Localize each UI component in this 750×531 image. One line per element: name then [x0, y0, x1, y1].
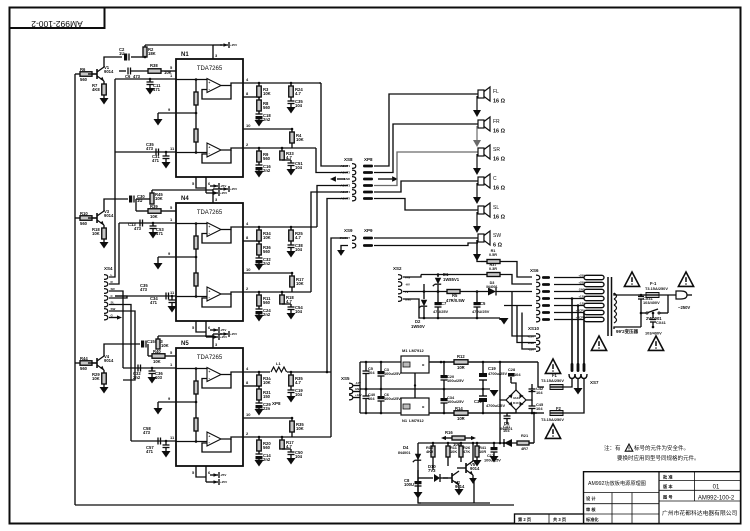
bottom bus wire: [75, 504, 514, 506]
resistor R6: [75, 73, 80, 75]
wire XS2 row4: [403, 299, 500, 318]
capacitor C41 104: [506, 410, 508, 414]
svg-text:10K: 10K: [161, 343, 169, 348]
N5 pin9 internal wire: [176, 401, 196, 403]
top rail stage1: [145, 44, 213, 46]
wire pin11 row stage2: [115, 295, 176, 297]
svg-text:471: 471: [153, 87, 161, 92]
wire XP8 to SR: [374, 152, 478, 186]
svg-text:TDA7265: TDA7265: [197, 210, 223, 216]
N5 pin2 wire: [243, 436, 331, 438]
svg-text:2n2: 2n2: [133, 375, 141, 380]
XP8 gnd arrow right: [378, 178, 392, 180]
regulator N2 LM7912: [401, 398, 429, 415]
wire N1 pin4 to XS8: [319, 82, 321, 84]
svg-text:-25V: -25V: [220, 184, 226, 188]
svg-text:+: +: [209, 435, 211, 439]
wire riser D5 rail: [499, 426, 501, 443]
wire C2 to R2: [131, 56, 145, 58]
N1 pin2 wire: [243, 147, 316, 149]
wire to XS6 row4: [477, 298, 532, 299]
wire C30 to R45: [136, 198, 152, 200]
resistor R4: [291, 129, 293, 132]
capacitor C35: [290, 97, 292, 101]
svg-text:10K: 10K: [263, 235, 271, 240]
svg-text:22n: 22n: [263, 406, 271, 411]
wire top rail corner: [537, 362, 539, 387]
N4 pin1 internal wire: [176, 223, 207, 225]
svg-text:10: 10: [246, 267, 251, 272]
svg-text:C: C: [493, 176, 497, 182]
svg-text:T3.15A/250V: T3.15A/250V: [645, 286, 668, 291]
svg-text:16 Ω: 16 Ω: [493, 157, 506, 163]
svg-text:R12: R12: [457, 354, 465, 359]
resistor R43 10K: [156, 339, 160, 349]
transformer core: [607, 277, 609, 336]
wire XS6 row4 in: [503, 306, 505, 319]
svg-text:GND: GND: [355, 387, 361, 391]
bus wire 1: [109, 79, 115, 277]
bus wire 3: [109, 291, 123, 368]
resistor R35: [291, 418, 293, 421]
svg-text:2n2: 2n2: [263, 457, 271, 462]
capacitor C5 470U: [476, 290, 479, 293]
svg-text:10K: 10K: [263, 380, 271, 385]
resistor R24: [290, 83, 292, 86]
wire pin1 row stage1: [115, 78, 176, 80]
N1 internal resistor lower: [195, 113, 197, 129]
frame vertical x474: [473, 478, 475, 503]
connector XS5 contacts: [349, 383, 353, 388]
capacitor C19 4700u: [482, 361, 485, 364]
svg-text:560: 560: [80, 77, 88, 82]
svg-text:R6: R6: [80, 67, 86, 72]
svg-text:4.7: 4.7: [295, 91, 301, 96]
capacitor C20 100u: [443, 361, 446, 364]
warning triangle F2: [545, 424, 560, 438]
svg-text:设 计: 设 计: [586, 495, 596, 502]
resistor R16 10K: [452, 436, 465, 440]
zener D2: [423, 290, 426, 293]
connector XS9 contacts: [352, 236, 356, 241]
resistor R40 10K: [147, 344, 149, 356]
capacitor C35 473: [155, 149, 157, 156]
speaker FL: [478, 90, 484, 98]
power left edge: [359, 362, 361, 413]
svg-text:99'2变压器: 99'2变压器: [616, 328, 639, 335]
resistor R29: [103, 370, 105, 373]
resistor R10: [75, 217, 80, 219]
svg-text:R44: R44: [80, 356, 88, 361]
svg-text:+25V: +25V: [230, 332, 237, 336]
op-amp IC N5 TDA7265 box: [176, 348, 243, 466]
svg-text:10K: 10K: [296, 137, 304, 142]
resistor R3: [258, 83, 260, 86]
svg-text:4.7: 4.7: [286, 444, 292, 449]
svg-text:1W50V: 1W50V: [411, 324, 425, 329]
ground under C35: [287, 107, 296, 114]
svg-text:XS9: XS9: [344, 228, 353, 233]
svg-text:10K: 10K: [92, 231, 100, 236]
capacitor C50: [290, 449, 292, 452]
svg-text:9014: 9014: [104, 213, 114, 218]
svg-text:XS8: XS8: [344, 157, 353, 162]
svg-text:-12V: -12V: [355, 381, 361, 385]
wire pin11 row stage1: [115, 151, 176, 153]
svg-text:+25V: +25V: [230, 187, 237, 191]
svg-text:0.3R: 0.3R: [489, 267, 497, 271]
svg-text:100U: 100U: [404, 482, 414, 487]
svg-text:9014: 9014: [470, 466, 480, 471]
capacitor CX41 top: [638, 296, 644, 298]
title block verticals: [658, 472, 660, 524]
svg-text:10K: 10K: [153, 359, 161, 364]
svg-text:4K9: 4K9: [426, 449, 434, 454]
svg-text:N1: N1: [181, 52, 189, 58]
wire N1 pin2 to XS8: [316, 148, 348, 173]
bus wire 4: [109, 296, 127, 298]
svg-text:XP8: XP8: [364, 157, 373, 162]
capacitor C34 471: [171, 295, 174, 298]
XS4 arrow: [109, 317, 117, 319]
svg-text:100u/25V: 100u/25V: [447, 378, 464, 383]
wire row6 to XS8: [327, 199, 348, 373]
ground under C32: [255, 264, 264, 271]
feedback wire N4: [291, 287, 293, 292]
primary top wire: [614, 293, 638, 295]
transistor V1: [96, 69, 98, 79]
capacitor C40 104: [365, 388, 368, 391]
svg-text:104: 104: [295, 309, 303, 314]
op-amp A inside N5: [207, 368, 221, 382]
connector XP9 pins: [363, 237, 373, 240]
N5 internal resistor upper: [195, 369, 197, 382]
svg-text:16 Ω: 16 Ω: [493, 129, 506, 135]
ground col E: [287, 169, 296, 176]
N1 pin1 internal wire: [176, 79, 207, 81]
svg-text:XP9: XP9: [364, 228, 373, 233]
transistor V4: [96, 358, 98, 368]
capacitor C32 2n2: [137, 365, 139, 372]
N5 pin9 ground: [158, 401, 176, 403]
primary bottom wire: [614, 327, 641, 329]
resistor R11b: [447, 443, 449, 446]
bundle wire 3: [583, 313, 585, 365]
svg-text:104: 104: [295, 165, 303, 170]
N5 pin10 wire: [243, 417, 292, 419]
speaker FR return arrow: [476, 126, 478, 140]
svg-text:103/400V: 103/400V: [645, 331, 662, 336]
svg-text:104: 104: [536, 390, 543, 395]
resistor R5 47R: [447, 290, 460, 294]
N4 pins 5 6 rail: [196, 321, 206, 332]
connector XS8 contacts: [352, 164, 356, 169]
regulator gnd link: [414, 373, 416, 398]
XS5 stubs: [353, 385, 360, 387]
svg-text:100u/25V: 100u/25V: [384, 396, 401, 401]
resistor R34: [258, 372, 260, 375]
svg-text:9014: 9014: [104, 69, 114, 74]
resistor R20: [258, 437, 260, 440]
wire XS7 right down: [563, 379, 584, 414]
bridge rectifier: [506, 390, 526, 410]
svg-text:10K: 10K: [92, 376, 100, 381]
svg-text:3A10: 3A10: [513, 396, 521, 400]
capacitor C54: [290, 304, 292, 307]
svg-text:LM7912: LM7912: [409, 348, 424, 353]
svg-text:560: 560: [263, 300, 271, 305]
transformer secondary windings: [584, 275, 604, 279]
capacitor C6 100u: [380, 389, 382, 396]
wire R37 right: [500, 275, 532, 285]
svg-text:104: 104: [368, 396, 375, 401]
capacitor C11 471: [149, 78, 152, 81]
N4 pin8 wire: [243, 240, 259, 242]
capacitor C34b 100u: [443, 412, 446, 415]
resistor R34: [258, 227, 260, 230]
svg-text:104: 104: [295, 392, 303, 397]
capacitor C18: [258, 111, 260, 114]
svg-text:+25V: +25V: [220, 480, 227, 484]
capacitor C35b 473: [165, 293, 167, 300]
svg-text:版 本: 版 本: [663, 483, 673, 490]
N1 feedback loop upper: [202, 86, 231, 100]
bus wire 5: [109, 305, 131, 442]
N1 pin10 wire: [243, 128, 292, 130]
resistor R39 10K: [135, 199, 137, 211]
resistor R18: [103, 225, 105, 228]
svg-text:9014: 9014: [455, 484, 465, 489]
svg-text:104: 104: [368, 370, 375, 375]
capacitor C38: [290, 241, 292, 245]
capacitor C32: [258, 255, 260, 258]
transformer primary winding: [614, 293, 617, 299]
op-amp A inside N1: [207, 79, 221, 93]
N1 pin9 internal wire: [176, 112, 196, 114]
svg-text:471: 471: [152, 158, 160, 163]
svg-text:M1: M1: [402, 348, 408, 353]
ground under C38: [287, 251, 296, 258]
title block outline: [584, 472, 741, 524]
op-amp B inside N5: [207, 432, 221, 446]
capacitor C51: [290, 160, 292, 163]
svg-text:100u/25V: 100u/25V: [384, 371, 401, 376]
N5 pin4 wire: [243, 371, 331, 373]
svg-text:注：有: 注：有: [604, 444, 621, 452]
svg-text:R40: R40: [153, 349, 161, 354]
svg-text:+12V: +12V: [355, 393, 362, 397]
svg-text:C13: C13: [128, 222, 136, 227]
warning triangle 2: [678, 272, 693, 286]
ground zener block: [499, 318, 501, 320]
connector XS6 contacts: [536, 275, 540, 280]
speaker SR: [478, 148, 484, 156]
N1 pin8 wire: [243, 96, 259, 98]
op-amp A inside N4: [207, 223, 221, 237]
ground under R7: [103, 95, 105, 98]
svg-text:+: +: [209, 81, 211, 85]
capacitor C15 1U: [141, 341, 144, 348]
N1 output wire lower: [221, 148, 243, 150]
N1 pins 5 6 rail: [196, 177, 206, 188]
N4 output wire lower: [221, 292, 243, 294]
svg-text:R38: R38: [150, 63, 158, 68]
svg-text:XS4: XS4: [104, 266, 113, 271]
connector XS2 contacts: [398, 275, 402, 280]
ground under C29: [255, 409, 264, 416]
resistor R2 18K: [143, 47, 147, 57]
N4 pin2 wire: [243, 291, 311, 293]
N4 pin 3 power rail: [212, 189, 214, 203]
svg-text:16 Ω: 16 Ω: [493, 186, 506, 192]
op-amp IC N4 TDA7265 box: [176, 203, 243, 321]
svg-text:471: 471: [146, 449, 154, 454]
feedback wire N5: [291, 432, 293, 437]
svg-text:第 2 页: 第 2 页: [518, 516, 531, 523]
connector XS6 pins: [542, 276, 550, 279]
speaker FL return arrow: [476, 96, 478, 110]
capacitor C7 47U: [437, 290, 440, 293]
wire pin11 row stage3: [131, 440, 176, 442]
page box: [515, 514, 584, 524]
svg-text:+: +: [209, 146, 211, 150]
capacitor C5b 104: [365, 361, 368, 364]
ground under R18: [103, 239, 105, 242]
svg-text:R39: R39: [150, 204, 158, 209]
speaker SL return arrow: [476, 212, 478, 226]
resistor R25: [290, 227, 292, 230]
svg-text:要换时应用同型号同规格的元件。: 要换时应用同型号同规格的元件。: [617, 454, 700, 462]
N5 feedback loop lower: [202, 439, 231, 452]
N4 pin4 wire: [243, 226, 317, 228]
bus wire 6: [109, 311, 135, 380]
svg-text:广州市花都科达电器有限公司: 广州市花都科达电器有限公司: [662, 509, 738, 517]
N4 internal resistor lower: [195, 257, 197, 273]
N1 output wire upper: [221, 83, 243, 86]
wire XP8 to SL: [374, 199, 478, 211]
capacitor C16: [258, 162, 260, 165]
svg-text:标准化: 标准化: [585, 516, 599, 523]
svg-text:473: 473: [140, 287, 148, 292]
svg-text:标号的元件为安全件。: 标号的元件为安全件。: [634, 444, 689, 452]
svg-text:共 3 页: 共 3 页: [553, 516, 566, 523]
svg-text:10K: 10K: [155, 196, 163, 201]
svg-text:T3.15A/250V: T3.15A/250V: [541, 378, 564, 383]
wire XP8 to C: [374, 181, 478, 192]
wire pin5 row stage1: [119, 70, 126, 72]
wire V1 collector: [104, 57, 122, 67]
svg-text:XP8: XP8: [272, 401, 281, 406]
fuse F1: [565, 378, 572, 380]
svg-text:IN4001: IN4001: [500, 426, 513, 431]
svg-text:18K: 18K: [148, 51, 156, 56]
wire R1 right: [500, 262, 532, 278]
N1 pin9 ground: [158, 112, 176, 114]
power rail mid: [360, 388, 490, 390]
bottom circuit frame: [418, 443, 421, 503]
capacitor C42 104: [531, 390, 534, 393]
wire N4 pin2 to XS8: [311, 192, 348, 292]
fuse F2: [550, 411, 563, 416]
speaker FR: [478, 120, 484, 128]
warning triangle 3: [591, 336, 606, 350]
connector XS7 pins: [571, 363, 574, 372]
XS7 middle ground: [577, 379, 579, 389]
svg-text:CX41: CX41: [656, 320, 667, 325]
transistor V3: [96, 213, 98, 223]
resistor R45 10K: [150, 193, 154, 204]
bridge left wire: [499, 362, 501, 400]
resistor R12 10R: [440, 361, 443, 364]
svg-text:AM992-100-2: AM992-100-2: [698, 496, 735, 502]
capacitor C36 103: [151, 367, 154, 370]
N5 pin1 internal wire: [176, 368, 207, 370]
wire pin1 row stage2: [119, 222, 176, 224]
capacitor C14: [258, 451, 260, 454]
bridge top wire: [511, 383, 516, 390]
svg-text:0.5R: 0.5R: [489, 253, 497, 257]
svg-text:N5: N5: [181, 341, 189, 347]
regulator M1 LM7912: [401, 356, 429, 373]
resistor R7: [103, 81, 105, 84]
svg-text:47K: 47K: [463, 449, 470, 454]
resistor R44: [75, 362, 80, 364]
svg-text:10R: 10R: [479, 449, 486, 454]
svg-text:10K: 10K: [150, 214, 158, 219]
resistor R36: [258, 241, 260, 244]
speaker C: [478, 177, 484, 185]
wire V5 collector: [472, 443, 474, 461]
wire XP8 to FL: [374, 94, 478, 166]
resistor R26: [460, 443, 462, 446]
ground pin2 col: [255, 171, 264, 178]
svg-text:470U/25V: 470U/25V: [472, 309, 490, 314]
svg-text:473: 473: [133, 74, 141, 79]
ground mid rail: [490, 390, 499, 397]
resistor R17: [281, 437, 283, 440]
N1 internal resistor upper: [195, 80, 197, 93]
N5 internal resistor lower: [195, 402, 197, 418]
svg-text:2n2: 2n2: [263, 312, 271, 317]
ground col E: [287, 313, 296, 320]
resistor R10b: [432, 443, 434, 446]
XS9 bent ground arrow: [341, 246, 348, 251]
svg-text:2n2: 2n2: [263, 168, 271, 173]
svg-text:560: 560: [263, 445, 271, 450]
svg-text:4.7: 4.7: [286, 299, 292, 304]
svg-text:16 Ω: 16 Ω: [493, 215, 506, 221]
inductor L1: [270, 367, 287, 378]
svg-text:4700u/25V: 4700u/25V: [488, 371, 507, 376]
svg-text:104: 104: [536, 406, 543, 411]
svg-text:560: 560: [80, 366, 88, 371]
svg-text:F2: F2: [556, 406, 562, 411]
feedback wire N1: [291, 143, 293, 148]
svg-text:471: 471: [156, 231, 164, 236]
svg-text:C6: C6: [125, 74, 131, 79]
N5 pin11 internal wire: [176, 441, 207, 443]
svg-text:4K8: 4K8: [92, 87, 100, 92]
warning triangle 4: [648, 336, 663, 350]
svg-text:TDA7265: TDA7265: [197, 66, 223, 72]
svg-text:103/400V: 103/400V: [643, 300, 660, 305]
svg-text:7V3: 7V3: [428, 468, 436, 473]
warning triangle F1: [545, 359, 560, 373]
power rail top: [360, 361, 538, 363]
speaker SR return arrow: [476, 154, 478, 168]
svg-text:10R: 10R: [457, 365, 465, 370]
svg-text:XS6: XS6: [530, 268, 539, 273]
